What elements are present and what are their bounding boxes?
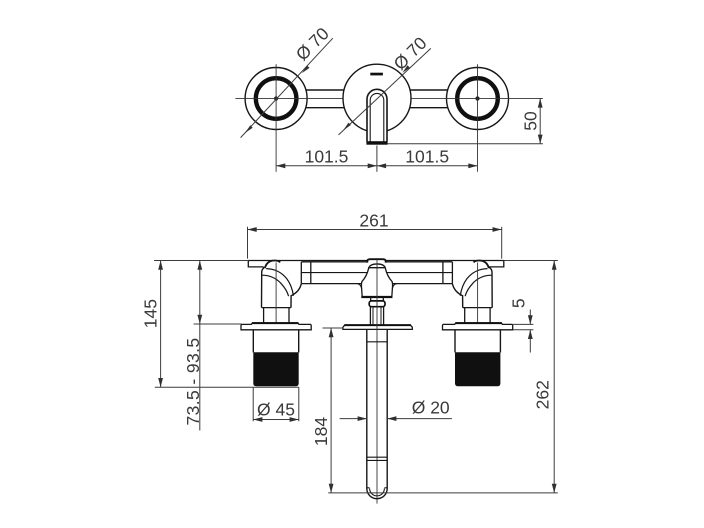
svg-text:101.5: 101.5	[405, 147, 449, 167]
left handle knurled ring	[256, 78, 297, 119]
dim line 50	[539, 98, 541, 143]
wire horizontal centerline left	[235, 97, 343, 99]
svg-text:101.5: 101.5	[305, 147, 349, 167]
valve stem right	[288, 308, 290, 324]
dim leader diameter 70 left	[241, 38, 333, 137]
dim 145 bottom extension	[155, 386, 299, 388]
valve joint line	[262, 307, 292, 309]
spout inlet boss	[367, 259, 385, 262]
dim 261 extension left	[247, 227, 249, 259]
handle escutcheon raised edge	[252, 322, 298, 324]
dim 261 extension right	[501, 227, 503, 259]
spout bell body	[361, 268, 392, 297]
dim leader diameter 70 center	[339, 48, 431, 134]
dim 184 top extension	[323, 327, 343, 329]
body tube (lower view)	[301, 262, 452, 284]
wire horizontal centerline right (doubles as 50-dim top extension)	[410, 97, 543, 99]
spout tube joint lower	[367, 456, 387, 458]
valve assembly left	[241, 260, 311, 386]
spout escutcheon top edge	[344, 324, 411, 326]
svg-text:184: 184	[311, 417, 331, 446]
dim 5 extension lower	[513, 329, 533, 331]
handle upper cylinder	[253, 330, 298, 353]
dim line 262	[553, 261, 555, 493]
elbow outer left edge	[262, 267, 264, 308]
bell-tube fillet left	[357, 284, 361, 289]
spout bell base edge	[361, 296, 392, 298]
elbow bend curve 1	[266, 269, 293, 296]
spout tube (top view, pointing down)	[367, 89, 387, 141]
node spout rosette (center circle)	[343, 64, 411, 132]
handle knurled grip (black)	[253, 352, 298, 386]
left handle vertical centerline	[275, 64, 277, 172]
dim line 145	[160, 261, 162, 388]
dim line 5 upper	[529, 310, 531, 325]
svg-text:5: 5	[509, 298, 529, 308]
dim 50 bottom extension	[388, 143, 543, 145]
node left handle rosette (outer circle)	[245, 64, 307, 172]
dim line 101.5 pair	[276, 165, 377, 167]
bell-tube fillet right	[392, 284, 396, 289]
dim line d45	[253, 419, 299, 421]
dim line 5 lower	[529, 330, 531, 353]
spout outlet (black end)	[366, 141, 387, 145]
valve stem left	[263, 308, 265, 324]
dim line 184	[330, 328, 332, 493]
svg-text:145: 145	[141, 299, 161, 328]
spout tip inner	[367, 488, 387, 496]
dim line 93.5 tail	[199, 324, 201, 431]
elbow bend curve 2	[262, 275, 289, 296]
svg-text:262: 262	[533, 380, 553, 409]
elbow dome	[265, 260, 280, 268]
svg-text:50: 50	[521, 111, 541, 131]
wall plate left end	[248, 260, 263, 267]
valve assembly right (mirror)	[443, 260, 513, 386]
dim d45 extension right	[298, 387, 300, 421]
svg-text:73.5 - 93.5: 73.5 - 93.5	[183, 337, 203, 425]
wire connecting bar left (body tube between left handle and spout rosette)	[300, 89, 450, 91]
spout set-screw slot	[370, 73, 383, 76]
spout tip outer	[367, 489, 387, 499]
left handle center dot	[274, 96, 278, 100]
spout neck	[371, 297, 384, 301]
spout centerline	[376, 258, 378, 504]
spout lower tube	[367, 329, 387, 498]
valve centerline	[275, 263, 277, 323]
wall plate top edge	[248, 260, 503, 262]
union joint right	[442, 262, 444, 284]
dim outlet extension (bottom of 184 and 262)	[328, 492, 558, 494]
spout escutcheon plate	[343, 325, 412, 330]
dim 5 extension upper	[513, 323, 533, 325]
dim 101.5 extension lines	[376, 146, 378, 172]
handle escutcheon plate	[241, 323, 311, 330]
dim line 93.5	[199, 261, 201, 325]
spout collar ring	[369, 301, 385, 307]
dim 145/93.5 top extension	[154, 260, 248, 262]
svg-text:Ø 20: Ø 20	[412, 398, 450, 418]
node right handle rosette	[447, 64, 509, 172]
dim line d20 right	[387, 418, 452, 420]
svg-text:Ø 45: Ø 45	[257, 399, 295, 419]
svg-text:261: 261	[359, 211, 388, 231]
spout tube joint upper	[367, 341, 387, 343]
union joint left	[300, 262, 302, 284]
wall plate right end	[489, 260, 504, 267]
spout connector	[370, 307, 383, 325]
dim 262 top extension	[504, 260, 558, 262]
dim d45 extension left	[252, 387, 254, 421]
dim 93.5 lower extension	[194, 323, 242, 325]
spout cartridge dome	[369, 264, 385, 268]
elbow right transition	[291, 284, 301, 308]
dim line d20 left	[340, 418, 367, 420]
dim line 261	[248, 229, 502, 231]
